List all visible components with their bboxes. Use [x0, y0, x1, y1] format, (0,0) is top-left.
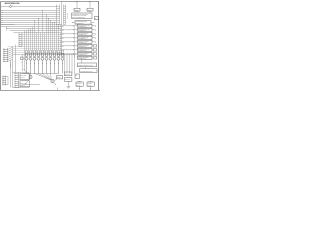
sensor box LB2	[87, 82, 94, 86]
box rear lamp L	[20, 74, 30, 80]
svg-text:12V 21/5W RH LH: 12V 21/5W RH LH	[78, 46, 87, 48]
wire lower rail y74	[23, 73, 59, 75]
box rear lamp R	[20, 81, 30, 87]
svg-text:12V 21/5W RH LH: 12V 21/5W RH LH	[78, 50, 87, 52]
wire matrix row y46	[8, 46, 58, 48]
wire matrix row y52.5	[13, 52, 58, 54]
wire meter tap	[10, 4, 12, 7]
arrow tick a	[21, 69, 24, 70]
wire P2 tail	[54, 82, 56, 84]
wire matrix col x54.5	[54, 23, 56, 51]
frame left border	[0, 2, 2, 91]
wire hub P1 diag	[26, 78, 30, 84]
wire matrix col x42.5	[42, 11, 44, 51]
arrow tick b	[22, 69, 25, 70]
wire matrix col x44.5	[44, 33, 46, 55]
merge chevron K1	[58, 25, 78, 28]
wire col ext x22.5	[22, 55, 24, 71]
fuse box F1	[74, 8, 80, 11]
merge chevron K8	[58, 53, 78, 56]
wire bundle x12.5	[12, 47, 14, 88]
box resistor unit	[57, 76, 63, 79]
tick LB2	[90, 87, 91, 89]
box relay R2	[65, 78, 72, 82]
svg-text:12V 21/5W RH LH: 12V 21/5W RH LH	[78, 26, 87, 28]
control box U1	[75, 21, 91, 25]
transistor Q8	[53, 51, 56, 74]
wire matrix col x40.5	[40, 33, 42, 55]
wire matrix col x32.5	[32, 27, 34, 55]
box lighting sw	[80, 69, 98, 73]
wire drop F1 out	[76, 11, 78, 13]
wire col x72	[71, 55, 73, 74]
transistor Q10	[61, 51, 64, 74]
wire J5 riser	[7, 77, 9, 85]
wire matrix col x36.5	[36, 33, 38, 55]
wire row A	[1, 24, 15, 26]
output box B1	[78, 24, 93, 27]
wire bottom of TS	[13, 87, 30, 89]
connector J1	[57, 5, 60, 25]
svg-text:CONNECTOR: CONNECTOR	[67, 13, 69, 19]
wire diag to TS boxes	[25, 71, 30, 76]
wire drop F2 out	[89, 11, 91, 13]
wire hub P1 stem	[30, 74, 32, 76]
output box B2	[78, 28, 93, 31]
connector J5	[3, 76, 6, 86]
wire bundle x10.5	[10, 60, 12, 88]
wire top of TS	[13, 72, 30, 74]
wire matrix col x58.5	[58, 25, 60, 51]
wire drop T2	[89, 2, 91, 9]
wire col x64.5	[64, 55, 66, 74]
terminal strip TS1	[15, 73, 19, 89]
wire row C	[7, 28, 60, 30]
merge chevron K6	[58, 45, 78, 48]
box combination sw	[78, 63, 97, 67]
wire matrix col x38.5	[38, 19, 40, 51]
wire bus row 4	[1, 16, 57, 18]
wire bus row 6	[1, 20, 57, 22]
wire LB2 drop	[90, 86, 92, 90]
wire row B	[1, 26, 60, 28]
wire riser x7	[6, 27, 8, 31]
output box B4	[78, 36, 93, 39]
wire LB1 drop	[79, 86, 81, 90]
wire matrix row y48.5	[13, 48, 58, 50]
arrow tick e	[14, 71, 17, 72]
wire row D	[10, 30, 58, 32]
output box B3	[78, 32, 93, 35]
svg-text:12V 21/5W RH LH: 12V 21/5W RH LH	[78, 38, 87, 40]
wire bundle x15.5	[15, 45, 17, 73]
wire matrix row y36.5	[22, 36, 58, 38]
junction box JB	[21, 57, 24, 60]
svg-text:12V 21/5W RH LH: 12V 21/5W RH LH	[78, 54, 87, 56]
wire row E	[14, 32, 58, 34]
note box N2	[95, 16, 99, 19]
transistor Q9	[57, 51, 60, 74]
wire matrix col x56.5	[56, 25, 58, 55]
wire J5 a	[6, 76, 9, 78]
wire matrix row y44.5	[22, 44, 58, 46]
wire U1 in	[73, 21, 76, 23]
connector J2	[64, 5, 66, 25]
wire matrix col x24.5	[24, 31, 26, 55]
wire matrix col x28.5	[28, 29, 30, 55]
output box B5	[78, 40, 93, 43]
merge chevron K4	[58, 37, 78, 40]
transistor Q4	[37, 51, 40, 74]
wire stub x58	[57, 88, 59, 91]
svg-text:IGN SW: IGN SW	[75, 0, 79, 2]
wire matrix col x34.5	[34, 21, 36, 51]
wire col x67	[66, 55, 68, 74]
meter M1	[10, 6, 12, 8]
wire matrix col x46.5	[46, 15, 48, 51]
output box B6	[78, 44, 93, 47]
wire fan J4	[8, 47, 13, 61]
wire matrix row y38.5	[22, 38, 58, 40]
svg-text:RES 6W: RES 6W	[57, 77, 61, 79]
transistor Q2	[29, 51, 32, 74]
wire matrix row y54	[13, 54, 77, 56]
wire matrix row y42.5	[22, 42, 58, 44]
transistor Q1	[25, 51, 28, 74]
wire top feeder	[1, 6, 57, 8]
wire matrix col x48.5	[48, 19, 50, 55]
transistor Q7	[49, 51, 52, 74]
wire col x74.5	[74, 55, 76, 74]
note block N1	[72, 13, 93, 19]
transistor Q5	[41, 51, 44, 74]
sensor box LB1	[76, 82, 83, 86]
wire drop T1	[76, 2, 78, 9]
merge chevron K3	[58, 33, 78, 36]
merge chevron K2	[58, 29, 78, 32]
frame right border	[98, 2, 100, 91]
wire U1 out	[91, 21, 95, 23]
frame top border	[1, 1, 100, 3]
svg-text:C/W TURN SIG LP: C/W TURN SIG LP	[76, 23, 84, 25]
ground G1	[67, 86, 70, 88]
output box B9	[78, 56, 93, 59]
wire bus row 8	[1, 24, 57, 26]
wire P2 to box	[54, 79, 57, 81]
wire link vertical	[74, 26, 76, 58]
wire bus row 7	[1, 22, 57, 24]
transistor Q6	[45, 51, 48, 74]
wire bus row 3	[1, 14, 57, 16]
wire matrix col x26.5	[26, 31, 28, 51]
wire bus vertical	[61, 2, 63, 55]
bottom rail line	[0, 90, 100, 92]
wire y84.5	[22, 84, 41, 86]
merge chevron K7	[58, 49, 78, 52]
tick LB1	[79, 87, 80, 89]
wire col ext x24.5	[24, 55, 26, 71]
wire bus row 2	[1, 12, 57, 14]
box relay R1	[65, 72, 72, 76]
cable fan to P2	[35, 74, 52, 81]
wire bus row 1	[1, 10, 57, 12]
connector J3	[19, 33, 22, 47]
wire col x69.5	[69, 55, 71, 74]
wire stack to box	[81, 59, 83, 63]
arrow tick d	[24, 69, 27, 70]
wire matrix row y40.5	[22, 40, 58, 42]
svg-text:12V 21/5W RH LH: 12V 21/5W RH LH	[78, 34, 87, 36]
box diode unit	[75, 74, 79, 78]
junction hub P2	[51, 79, 54, 82]
svg-text:DIO: DIO	[75, 75, 77, 77]
output box B7	[78, 48, 93, 51]
connector J4	[4, 48, 8, 62]
wire matrix col x30.5	[30, 29, 32, 51]
wire matrix row y50.5	[13, 50, 58, 52]
merge chevron K5	[58, 41, 78, 44]
wire matrix col x50.5	[50, 21, 52, 51]
output box B8	[78, 52, 93, 55]
wire box to box	[85, 67, 87, 69]
arrow tick c	[23, 69, 26, 70]
wire J5 b	[6, 84, 9, 86]
wire matrix col x52.5	[52, 23, 54, 55]
fuse box F2	[87, 8, 93, 11]
svg-text:12V 21/5W RH LH: 12V 21/5W RH LH	[78, 30, 87, 32]
wire matrix row y34.5	[22, 34, 58, 36]
wire relay to ground	[68, 81, 70, 86]
junction hub P1	[29, 75, 32, 78]
wire bus row 5	[1, 18, 57, 20]
transistor Q3	[33, 51, 36, 74]
svg-text:12V 21/5W RH LH: 12V 21/5W RH LH	[78, 58, 87, 60]
svg-text:12V 21/5W RH LH: 12V 21/5W RH LH	[78, 42, 87, 44]
